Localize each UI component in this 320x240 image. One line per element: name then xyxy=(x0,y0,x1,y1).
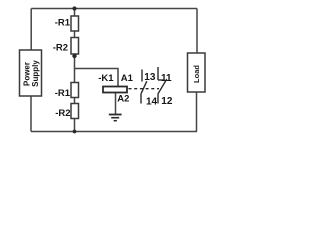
svg-text:11: 11 xyxy=(161,73,172,84)
relay coil K1 xyxy=(103,87,127,93)
wire middle branch upper xyxy=(74,9,76,17)
resistor R1 upper xyxy=(71,16,79,31)
wire lower R2 to bottom bus xyxy=(74,119,76,132)
resistor R2 upper xyxy=(71,38,79,55)
contact 11-12 seat xyxy=(158,79,164,81)
contact 11-12 top lead xyxy=(157,67,159,80)
wire between R1 and R2 xyxy=(74,31,76,38)
svg-text:13: 13 xyxy=(144,72,156,83)
wire left (supply top lead) xyxy=(30,9,32,51)
wire left (supply bottom lead) xyxy=(30,96,32,132)
svg-text:A2: A2 xyxy=(117,94,129,105)
power supply label xyxy=(23,60,41,87)
svg-text:-R2: -R2 xyxy=(55,108,70,119)
svg-text:Supply: Supply xyxy=(31,60,40,87)
wire right (load bottom lead) xyxy=(196,92,198,132)
ground xyxy=(109,115,122,121)
svg-text:12: 12 xyxy=(161,96,173,107)
wire right (load top lead) xyxy=(196,9,198,54)
junction dot bottom xyxy=(73,130,77,134)
wire between lower R1 and R2 xyxy=(74,98,76,104)
resistor R1 lower xyxy=(71,83,79,98)
load box xyxy=(188,53,206,92)
svg-text:14: 14 xyxy=(146,97,158,108)
mechanical link dashed xyxy=(129,88,160,90)
junction dot middle xyxy=(72,54,76,58)
svg-text:A1: A1 xyxy=(121,73,134,84)
wire coil A2 lead xyxy=(115,93,117,115)
svg-text:-R1: -R1 xyxy=(55,18,71,29)
svg-text:-K1: -K1 xyxy=(98,73,114,84)
wire top bus xyxy=(31,8,197,10)
power supply box xyxy=(20,50,42,96)
contact 11-12 moving arm xyxy=(158,79,167,94)
contact 13-14 top lead xyxy=(141,70,143,82)
resistor R2 lower xyxy=(71,104,79,119)
wire below R2 to branch point xyxy=(74,53,76,83)
contact 13-14 moving arm xyxy=(141,81,147,94)
wire bottom bus xyxy=(31,131,197,133)
junction dot top xyxy=(72,6,76,10)
contact 11-12 bottom lead xyxy=(157,94,159,103)
svg-text:Load: Load xyxy=(192,65,201,83)
svg-text:-R2: -R2 xyxy=(53,43,68,54)
svg-text:-R1: -R1 xyxy=(55,88,71,99)
wire branch to relay coil xyxy=(75,69,119,87)
contact 13-14 bottom lead xyxy=(140,94,142,104)
